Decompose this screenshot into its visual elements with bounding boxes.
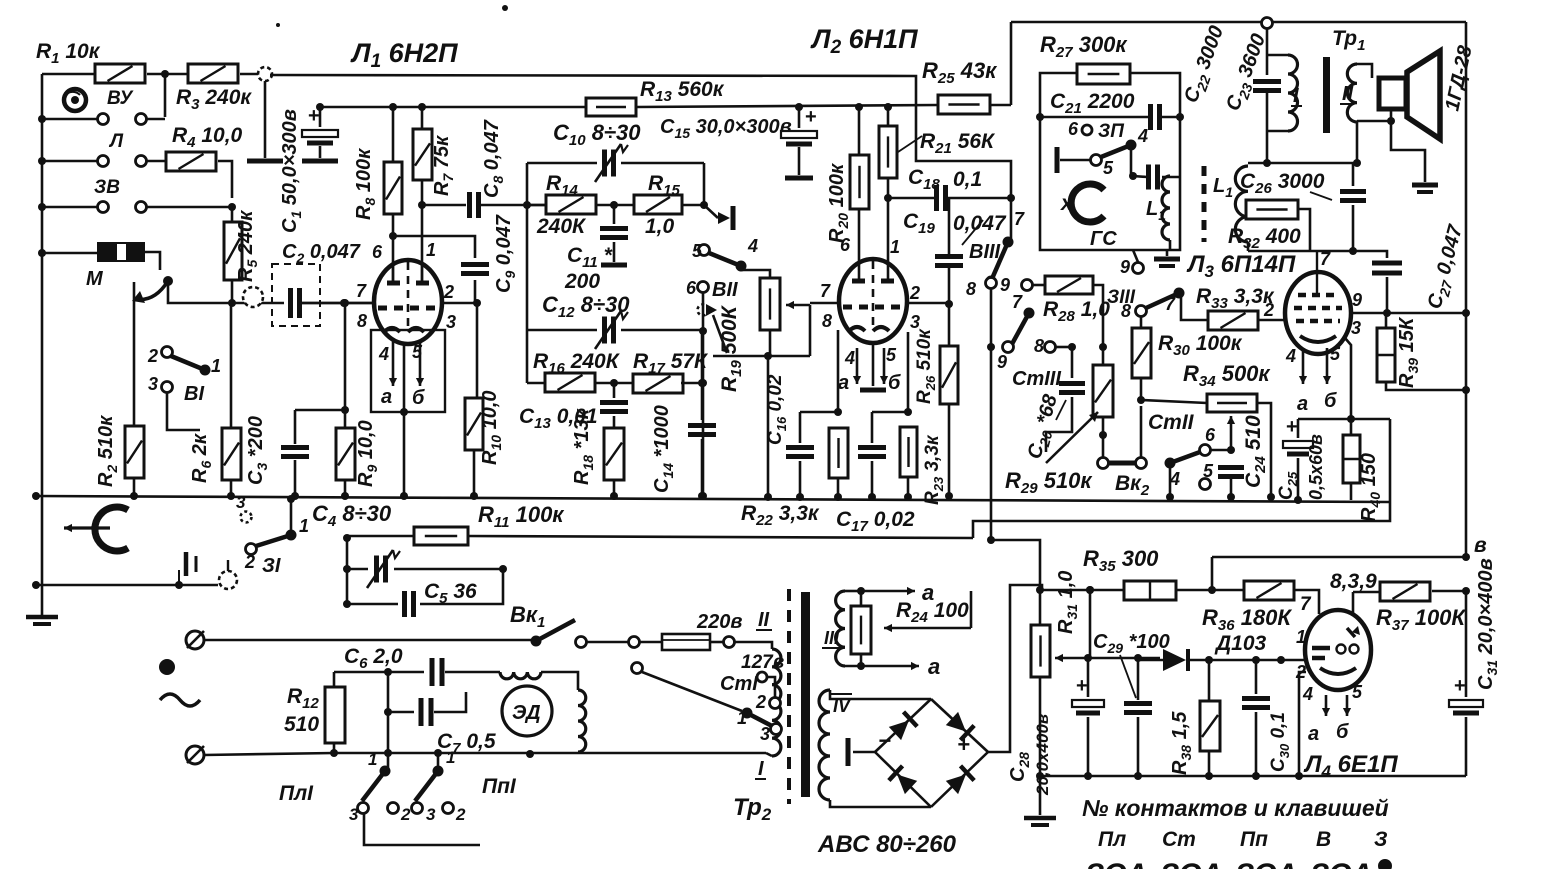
transformer Тр1 core (1323, 57, 1330, 133)
svg-text:20,0х400в: 20,0х400в (1033, 714, 1052, 796)
svg-text:5: 5 (412, 342, 423, 362)
svg-text:R20 100к: R20 100к (826, 163, 851, 243)
svg-text:8: 8 (966, 279, 976, 299)
svg-text:6: 6 (840, 235, 851, 255)
svg-text:6: 6 (372, 242, 383, 262)
svg-text:R22 3,3к: R22 3,3к (741, 502, 820, 529)
svg-text:2: 2 (1263, 300, 1274, 320)
label 220в (696, 609, 772, 633)
capacitor C20 (1024, 347, 1085, 462)
svg-text:4: 4 (1302, 684, 1313, 704)
svg-text:R37 100К: R37 100К (1376, 605, 1466, 634)
svg-text:Пп: Пп (1240, 828, 1268, 851)
svg-text:б: б (1324, 390, 1337, 412)
svg-text:C6 2,0: C6 2,0 (344, 645, 403, 672)
speaker 1ГД-28 (1357, 43, 1477, 192)
wire loop C10 (527, 163, 704, 330)
filament Л3 (1285, 344, 1341, 415)
svg-text:R21 56К: R21 56К (920, 130, 996, 157)
capacitor C6 (334, 645, 500, 686)
capacitor C21 (1036, 90, 1184, 130)
svg-text:R1 10к: R1 10к (36, 40, 101, 67)
svg-text:1: 1 (890, 237, 900, 257)
svg-text:C9 0,047: C9 0,047 (493, 214, 518, 293)
svg-text:ЗОА: ЗОА (1310, 858, 1372, 869)
svg-text:СтI: СтI (720, 673, 758, 695)
bus M2 R11 (347, 419, 1390, 538)
ground ГС (1154, 250, 1180, 266)
svg-text:I: I (758, 758, 764, 780)
svg-text:R9 10,0: R9 10,0 (355, 420, 380, 487)
svg-text:9: 9 (1120, 257, 1130, 277)
capacitor C15 (781, 103, 817, 178)
svg-text:2: 2 (244, 552, 255, 572)
fuse (662, 634, 735, 650)
svg-text:R10 10,0: R10 10,0 (479, 390, 504, 465)
capacitor C5 (343, 569, 503, 617)
svg-text:+: + (805, 106, 817, 128)
svg-text:ПпI: ПпI (482, 775, 517, 798)
svg-text:4: 4 (1285, 346, 1296, 366)
svg-text:7: 7 (1165, 294, 1176, 314)
svg-text:Д103: Д103 (1214, 632, 1267, 655)
label tube Л1 (350, 38, 458, 72)
resistor R10 (465, 303, 504, 500)
switch ПпI (412, 748, 517, 824)
switch Вк2 (1098, 406, 1150, 499)
svg-text:ЭД: ЭД (512, 702, 541, 724)
switch СтII (1165, 425, 1232, 501)
wire grid Л2 (810, 302, 840, 305)
svg-text:R39 15К: R39 15К (1396, 316, 1421, 388)
switch ВII (686, 236, 770, 301)
label tube Л2 (810, 24, 918, 58)
svg-text:C30 0,1: C30 0,1 (1268, 712, 1292, 772)
capacitor C27 (1372, 222, 1470, 312)
tube Л1 (374, 260, 442, 344)
svg-text:III: III (824, 628, 840, 648)
resistor R14 (527, 172, 596, 238)
svg-text:2: 2 (909, 283, 920, 303)
svg-text:Л2 6Н1П: Л2 6Н1П (810, 24, 918, 58)
resistor R6 (189, 303, 241, 500)
svg-text:C8 0,047: C8 0,047 (481, 119, 506, 198)
svg-text:1,0: 1,0 (645, 215, 675, 238)
resistor R23 (900, 332, 946, 505)
pickup symbol (64, 507, 128, 551)
jack antenna (247, 67, 283, 161)
svg-text:II: II (1342, 83, 1354, 105)
svg-text:C5 36: C5 36 (424, 580, 477, 607)
svg-text:+: + (1454, 675, 1466, 697)
pot R31 (1031, 571, 1080, 776)
svg-text:Л3 6П14П: Л3 6П14П (1186, 251, 1296, 281)
resistor R16 (527, 330, 621, 392)
svg-text:127в: 127в (741, 652, 784, 673)
capacitor C14 (651, 330, 716, 500)
motor ЭД (500, 672, 586, 758)
svg-text:C3 *200: C3 *200 (245, 416, 270, 485)
svg-text:Л: Л (108, 131, 124, 152)
resistor R22 (741, 330, 848, 529)
wire top rail (1011, 22, 1466, 557)
svg-text:в: в (1474, 534, 1487, 557)
switch ЗВ (38, 177, 236, 213)
svg-text:6: 6 (1068, 119, 1079, 139)
svg-text:7: 7 (1014, 209, 1025, 229)
winding IV (819, 690, 931, 807)
wire pin2 Л2 (906, 302, 949, 305)
diode Д103 (1140, 632, 1267, 671)
contact 9 ГС (1120, 250, 1144, 277)
svg-text:СтII: СтII (1148, 411, 1195, 434)
wire left rail (41, 74, 44, 617)
svg-text:R31 1,0: R31 1,0 (1055, 571, 1080, 634)
grid stopper to ВII (704, 205, 733, 230)
wire C23 to coil (1266, 131, 1269, 163)
svg-text:З: З (1374, 828, 1388, 851)
filament box Л1 (371, 330, 445, 500)
resistor R40 (1343, 419, 1383, 522)
resistor R38 (1169, 660, 1220, 780)
filament Л2 (838, 341, 901, 394)
label Тр2 (733, 794, 772, 824)
resistor R24 (851, 591, 969, 666)
bridge left terminal (848, 738, 875, 766)
svg-text:2: 2 (443, 282, 454, 302)
capacitor C11 (564, 205, 628, 293)
svg-text:б: б (1336, 721, 1349, 743)
capacitor C28 (1007, 654, 1104, 796)
svg-text:C16 0,02: C16 0,02 (765, 374, 789, 445)
svg-text:9: 9 (1352, 290, 1362, 310)
svg-text:5: 5 (1352, 682, 1363, 702)
svg-text:R25 43к: R25 43к (922, 58, 998, 87)
switch ЗI (236, 493, 309, 577)
head symbols (186, 552, 237, 589)
capacitor C29 (1093, 631, 1170, 780)
svg-text:а: а (838, 372, 849, 394)
capacitor C15 label (660, 116, 792, 141)
svg-text:8,3,9: 8,3,9 (1330, 570, 1377, 593)
capacitor C1 (279, 103, 338, 233)
svg-text:9: 9 (997, 352, 1007, 372)
switch ВIII (962, 198, 1025, 540)
svg-text:R3 240к: R3 240к (176, 86, 252, 113)
switch contact ВII-b (698, 293, 728, 500)
svg-text:R28 1,0: R28 1,0 (1043, 298, 1110, 325)
svg-text:Пл: Пл (1098, 828, 1126, 851)
resistor R39 (1377, 313, 1470, 394)
capacitor C18 (888, 166, 1015, 211)
svg-text:ВI: ВI (184, 383, 204, 405)
svg-text:C14 *1000: C14 *1000 (651, 405, 676, 493)
svg-text:R17 57К: R17 57К (633, 350, 709, 377)
svg-text:R11 100к: R11 100к (478, 502, 565, 531)
winding III (822, 587, 893, 670)
svg-text:R35 300: R35 300 (1083, 546, 1159, 575)
svg-text:б: б (888, 372, 901, 394)
wire pin9 Л3 (1351, 309, 1470, 317)
svg-text:3: 3 (760, 724, 770, 744)
resistor R9 (336, 299, 380, 500)
svg-text:ГС: ГС (1090, 228, 1117, 250)
pin labels Л1 (356, 240, 456, 332)
transformer Тр2 core (789, 589, 810, 804)
svg-text:1: 1 (368, 750, 377, 769)
resistor R25 (922, 22, 1011, 114)
capacitor C22 (1149, 23, 1231, 190)
tube Л4 (1305, 610, 1371, 690)
capacitor C25 (1276, 416, 1326, 504)
bottom caption (1082, 795, 1389, 821)
resistor R20 (826, 103, 869, 282)
svg-text:5: 5 (1103, 158, 1114, 178)
svg-text:5: 5 (1330, 344, 1341, 364)
label tube Л3 (1186, 251, 1296, 281)
speck (276, 5, 508, 27)
svg-text:х: х (1060, 192, 1074, 215)
capacitor C17 (836, 412, 915, 535)
capacitor C26 (1240, 163, 1366, 255)
svg-text:9: 9 (1000, 275, 1010, 295)
capacitor C24 (1218, 415, 1269, 501)
capacitor C30 (1242, 660, 1292, 780)
capacitor C3 (245, 410, 345, 500)
svg-text:7: 7 (356, 281, 367, 301)
svg-text:1: 1 (446, 748, 455, 767)
capacitor C19 (903, 198, 1007, 346)
capacitor C23 (1222, 18, 1281, 132)
svg-text:7: 7 (1012, 292, 1023, 312)
arrow a top (861, 580, 934, 605)
wire pin2 Л4 (1295, 672, 1306, 780)
resistor R37 (1376, 582, 1470, 634)
arrow a wiper (884, 591, 971, 632)
svg-text:ЗI: ЗI (262, 555, 281, 577)
wire pin7 Л1 (300, 299, 375, 307)
svg-text:2: 2 (455, 805, 466, 824)
ground C28 (1024, 776, 1056, 825)
pot R29 (1005, 347, 1113, 497)
svg-text:R18 *13к: R18 *13к (571, 408, 596, 485)
resistor R26 (914, 328, 958, 500)
svg-text:C17 0,02: C17 0,02 (836, 508, 915, 535)
pin labels Л2 (820, 235, 920, 332)
svg-text:1: 1 (1296, 627, 1306, 647)
label R27 (1040, 32, 1128, 61)
pin labels Л4 (1295, 627, 1306, 682)
wire mains bottom (334, 752, 766, 755)
svg-text:ВII: ВII (712, 279, 738, 301)
label tube Л4 (1303, 751, 1398, 781)
svg-text:АВС 80÷260: АВС 80÷260 (817, 831, 957, 858)
bridge plus rail (988, 585, 1042, 752)
switch ПлI (279, 750, 411, 824)
svg-text:ПлI: ПлI (279, 782, 314, 805)
svg-text:Л1 6Н2П: Л1 6Н2П (350, 38, 458, 72)
svg-text:R36 180К: R36 180К (1202, 605, 1292, 634)
svg-text:8: 8 (357, 311, 367, 331)
bridge diode 3 (889, 766, 918, 795)
svg-text:СтIII: СтIII (1012, 368, 1061, 390)
switch ЗП (1057, 119, 1148, 180)
bridge АВС (875, 699, 988, 807)
label в (1474, 534, 1487, 557)
switch ВI (134, 282, 221, 430)
svg-text:а: а (1297, 393, 1308, 415)
resistor R1 (36, 40, 145, 83)
svg-text:4: 4 (378, 344, 389, 364)
svg-text:R8 100к: R8 100к (353, 148, 378, 220)
svg-text:R19 500К: R19 500К (718, 304, 745, 392)
svg-text:R32 400: R32 400 (1228, 225, 1301, 252)
svg-text:ЗОА: ЗОА (1235, 858, 1297, 869)
svg-text:7: 7 (820, 281, 831, 301)
svg-text:ЗОА: ЗОА (1160, 858, 1222, 869)
filament Л4 (1302, 682, 1363, 745)
svg-text:240К: 240К (536, 215, 587, 238)
svg-text:4: 4 (844, 348, 855, 368)
svg-text:R34 500к: R34 500к (1183, 361, 1271, 390)
svg-text:+: + (1286, 416, 1298, 438)
tap 127в (741, 652, 784, 700)
svg-text:1: 1 (211, 356, 221, 376)
svg-text:R5 240к: R5 240к (235, 210, 260, 282)
bottom clipped row (1085, 858, 1392, 869)
label АВС (817, 831, 957, 858)
capacitor C8 (422, 119, 546, 218)
svg-text:7: 7 (1320, 249, 1331, 269)
tube Л2 (839, 259, 907, 343)
pot R19 (713, 278, 810, 501)
svg-text:R2 510к: R2 510к (95, 415, 120, 487)
svg-text:2: 2 (755, 692, 766, 712)
svg-text:а: а (381, 386, 392, 408)
capacitor C9 (393, 214, 518, 303)
svg-text:М: М (86, 268, 104, 290)
svg-text:C10 8÷30: C10 8÷30 (553, 120, 641, 149)
svg-text:I: I (1293, 85, 1299, 107)
wire ВIII col to R35 (987, 536, 1040, 588)
resistor R5 (224, 207, 260, 303)
svg-text:C24 510: C24 510 (1242, 415, 1269, 488)
bus M3 right (1212, 553, 1470, 590)
resistor R17 (595, 350, 709, 393)
svg-text:II: II (758, 609, 770, 631)
pickup arrow (132, 276, 232, 303)
wiper R31 (1055, 586, 1160, 662)
svg-text:R27 300к: R27 300к (1040, 32, 1128, 61)
block ГС frame (1040, 73, 1180, 250)
bridge diode 1 (888, 712, 917, 741)
transformer Тр1 primary (1267, 27, 1365, 131)
wire bus A top (270, 75, 1011, 198)
svg-text:3: 3 (148, 374, 158, 394)
resistor R4 (166, 124, 243, 198)
svg-text:C2 0,047: C2 0,047 (282, 241, 361, 266)
svg-text:5: 5 (886, 345, 897, 365)
resistor R2 (95, 415, 144, 500)
coil L1 antenna (1213, 159, 1361, 251)
wire y585 (32, 570, 218, 589)
svg-text:+: + (1076, 675, 1088, 697)
svg-text:3: 3 (349, 805, 359, 824)
terminal mains bottom (186, 746, 334, 764)
switch ЗIII (1107, 287, 1185, 321)
svg-text:7: 7 (1300, 594, 1312, 615)
svg-text:8: 8 (1034, 336, 1044, 356)
tube Л3 (1285, 249, 1362, 354)
svg-text:ЗВ: ЗВ (94, 177, 120, 198)
svg-text:4: 4 (747, 236, 758, 256)
svg-text:C4 8÷30: C4 8÷30 (312, 501, 392, 530)
arrow a bottom (893, 654, 940, 679)
bottom row labels (1098, 828, 1388, 851)
svg-text:R38 1,5: R38 1,5 (1169, 711, 1194, 775)
ground left rail (26, 617, 58, 624)
svg-text:ЗОА: ЗОА (1085, 858, 1147, 869)
svg-text:б: б (412, 387, 425, 409)
contact 8 СтIII (1034, 336, 1076, 356)
resistor R27 (1077, 64, 1130, 84)
svg-text:ВIII: ВIII (969, 241, 1001, 263)
svg-text:R6 2к: R6 2к (189, 433, 214, 483)
svg-text:а: а (928, 654, 940, 679)
label СтII (1148, 411, 1195, 434)
coil L1 ГС (1146, 176, 1170, 250)
resistor R34 (1141, 361, 1275, 501)
bridge diode 4 (945, 766, 974, 795)
capacitor C31 (1449, 558, 1500, 776)
capacitor C13 (519, 383, 628, 432)
jack ВУ (64, 89, 86, 111)
svg-text:5: 5 (692, 241, 703, 261)
svg-text:2: 2 (147, 346, 158, 366)
bus bottom right (1036, 772, 1466, 780)
resistor R12 (284, 672, 345, 757)
svg-text:0,1: 0,1 (953, 168, 982, 191)
svg-text:1: 1 (426, 240, 436, 260)
svg-text:3: 3 (426, 805, 436, 824)
switch ВУ (38, 88, 165, 125)
gen ГС symbol (1060, 184, 1117, 250)
capacitor C12 variable (595, 311, 628, 349)
svg-text:R29 510к: R29 510к (1005, 468, 1093, 497)
bus M1 ground (32, 492, 1390, 502)
microphone М (38, 242, 160, 290)
switch Вк1 (510, 602, 662, 674)
svg-text:8: 8 (1121, 301, 1131, 321)
label R35 (1083, 546, 1159, 575)
svg-text:−: − (878, 728, 891, 753)
capacitor C4 variable (312, 501, 507, 604)
terminal mains top (186, 631, 536, 649)
svg-text:3: 3 (910, 312, 920, 332)
svg-text:R23 3,3к: R23 3,3к (922, 434, 946, 505)
label 839 (1330, 570, 1380, 614)
svg-text:R4 10,0: R4 10,0 (172, 124, 243, 151)
svg-text:4: 4 (1137, 126, 1148, 146)
wire diode to pin1 (1188, 656, 1306, 664)
resistor R28 (1043, 276, 1110, 351)
resistor R13 (586, 78, 725, 116)
svg-text:ЗП: ЗП (1098, 121, 1124, 142)
label I Тр2 (755, 758, 766, 780)
svg-text:0,5х60в: 0,5х60в (1306, 434, 1326, 500)
resistor R3 (176, 64, 252, 113)
svg-text:R30 100к: R30 100к (1158, 332, 1243, 359)
